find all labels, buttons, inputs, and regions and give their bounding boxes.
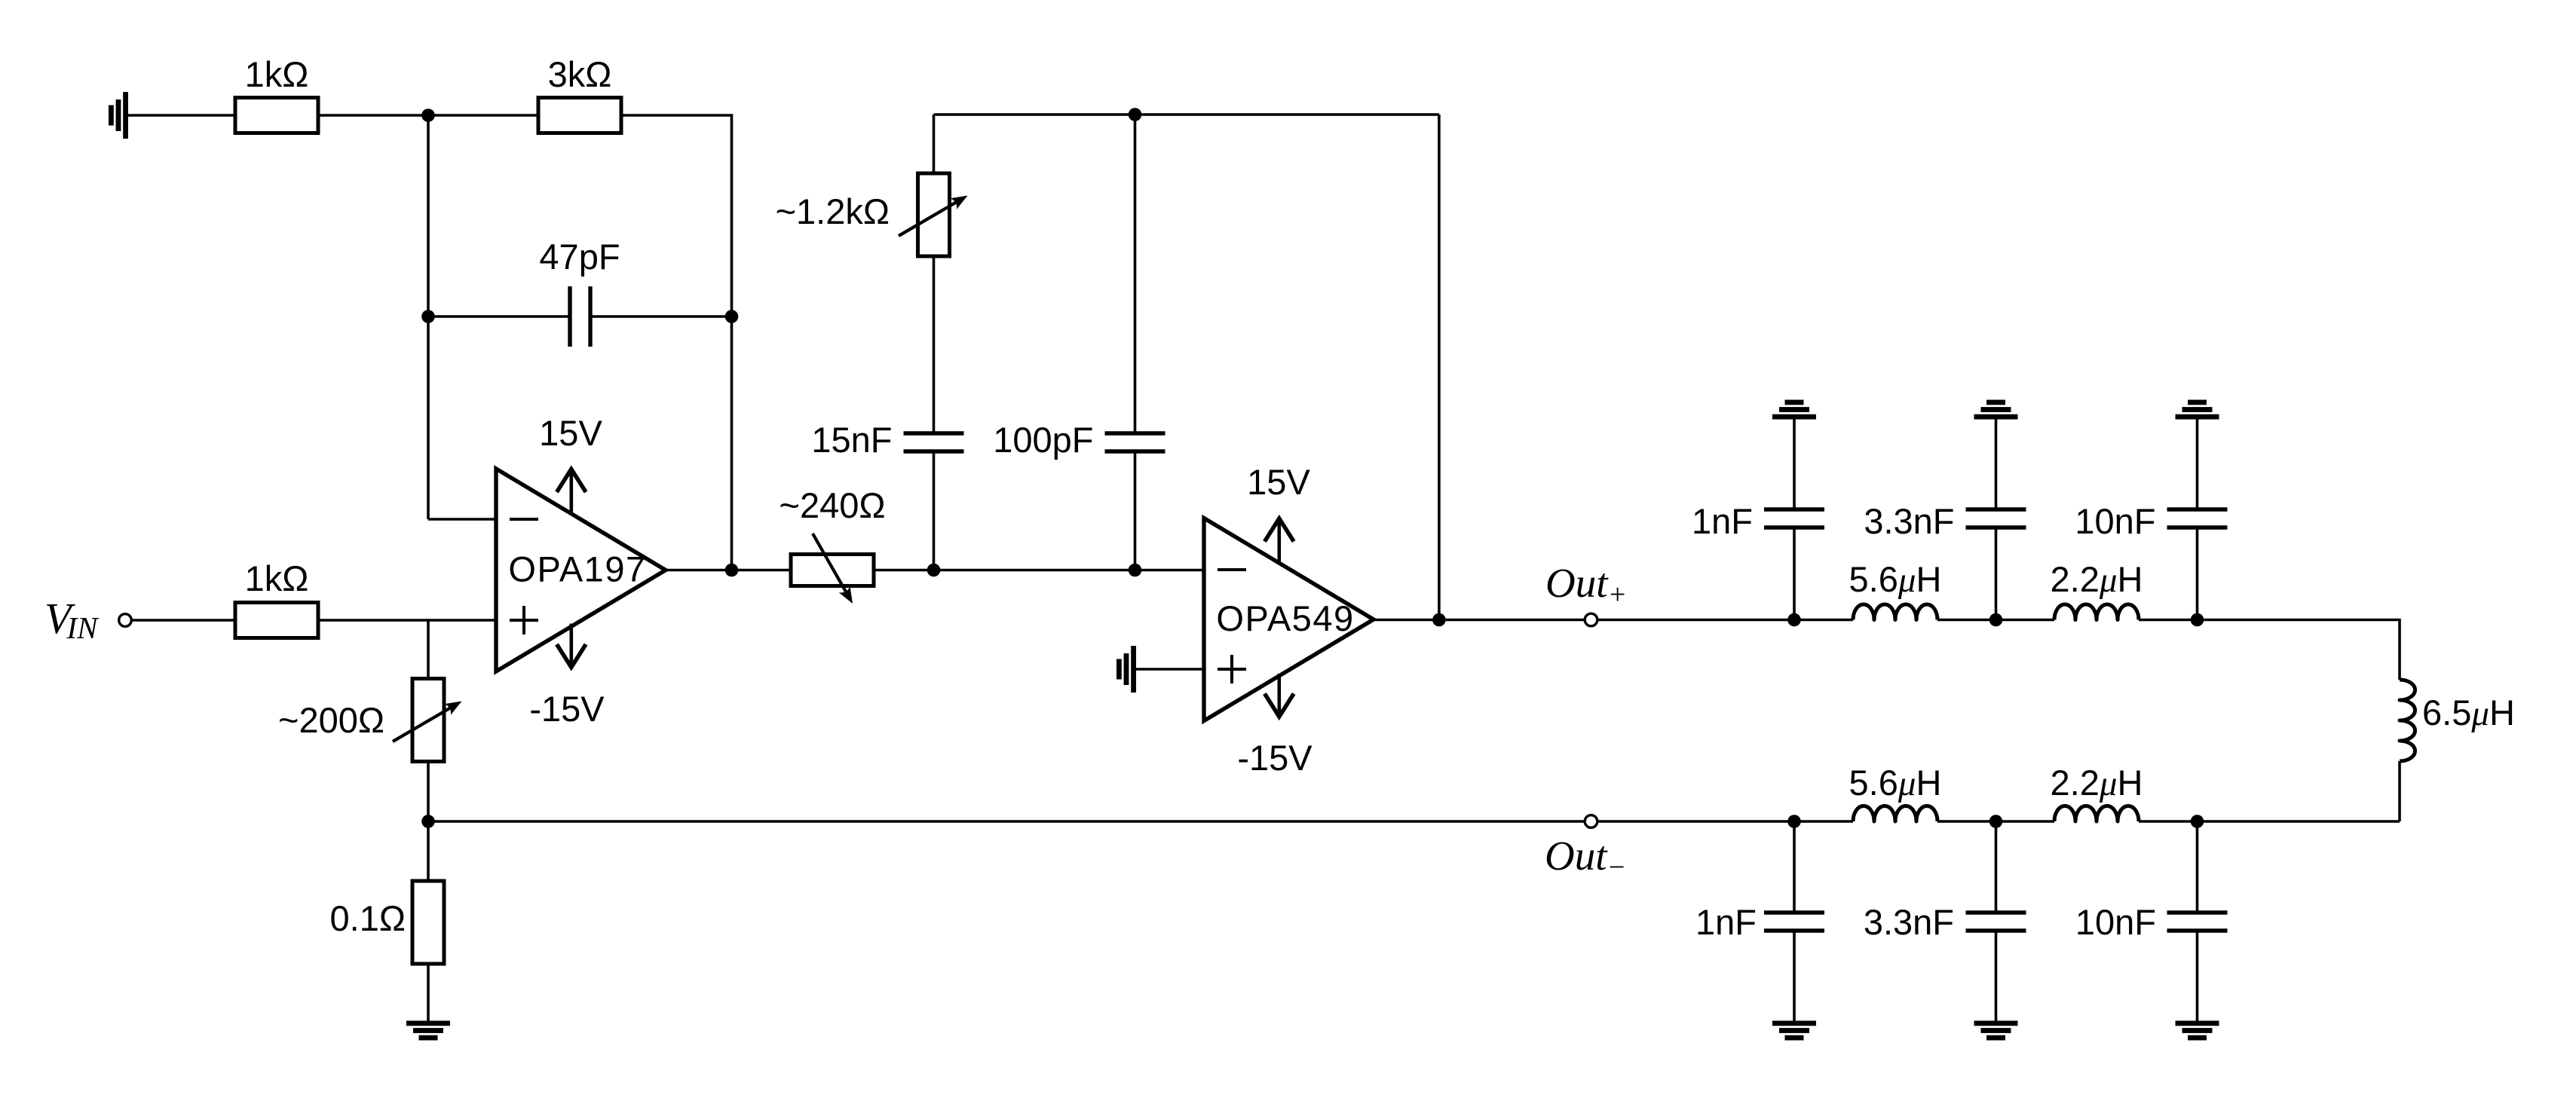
ground below cap (1772, 1021, 1816, 1026)
ground above cap x=2914.5 (2176, 414, 2219, 420)
potentiometer R7 1.2k (918, 173, 950, 256)
node OPA549 output junction (1432, 613, 1446, 627)
OPA549 negative supply arrow (1278, 674, 1282, 715)
inductor L2 2.2uH top (2054, 604, 2139, 620)
svg-text:6.5μH: 6.5μH (2422, 693, 2515, 733)
node bottom left (421, 815, 435, 828)
wire C2 to signal row (933, 451, 936, 570)
wire Out- to filter (1597, 820, 1853, 823)
wire cap to ground (2196, 931, 2199, 1021)
wire top feedback rail (934, 113, 1439, 116)
wire 100pF top lead (1134, 115, 1137, 433)
wire cap to ground (1995, 931, 1998, 1021)
wire R6 to OPA549 inverting input (874, 569, 1204, 572)
wire rail to cap x=2914.5 (2196, 821, 2199, 913)
svg-text:~1.2kΩ: ~1.2kΩ (776, 191, 890, 231)
wire R7 to C2 (933, 256, 936, 433)
svg-text:1kΩ: 1kΩ (245, 558, 309, 598)
ground below R5 (406, 1021, 450, 1026)
node filter1 bottom (1787, 815, 1801, 828)
svg-text:1nF: 1nF (1692, 501, 1753, 541)
svg-text:0.1Ω: 0.1Ω (330, 898, 406, 938)
svg-text:15V: 15V (1247, 462, 1310, 502)
terminal Out- (1585, 815, 1597, 828)
ground below cap (2176, 1021, 2219, 1026)
svg-text:47pF: 47pF (539, 237, 620, 277)
svg-text:3.3nF: 3.3nF (1864, 902, 1954, 942)
svg-text:-15V: -15V (529, 689, 605, 729)
wire cap to ground (1793, 931, 1796, 1021)
node filter3 top (2191, 613, 2204, 627)
ground above cap x=2380 (1772, 414, 1816, 420)
terminal Out+ (1585, 613, 1597, 626)
wire to OPA197 inverting input (428, 518, 498, 521)
wire L5 to corner (2139, 820, 2400, 823)
resistor R1 1k top (235, 98, 318, 133)
wire ground to cap (2196, 420, 2199, 510)
wire Out+ to filter (1597, 619, 1853, 622)
wire output to R6 (666, 569, 791, 572)
wire cap to rail (2196, 528, 2199, 620)
svg-text:3.3nF: 3.3nF (1864, 501, 1954, 541)
node OPA197 output (725, 564, 739, 577)
wire 47pF left lead (428, 315, 570, 318)
node filter3 bottom (2191, 815, 2204, 828)
wire cap to rail (1793, 528, 1796, 620)
wire node A down to inverting input (427, 115, 430, 519)
wire L1 to node2 (1937, 619, 2054, 622)
wire R4 to bottom node (427, 762, 430, 822)
OPA197 negative supply arrow (569, 624, 573, 666)
capacitor 1nF top row (1764, 507, 1824, 511)
wire node to R5 (427, 821, 430, 881)
wire R2 to corner and down (621, 115, 732, 317)
node A junction (421, 109, 435, 122)
svg-text:10nF: 10nF (2075, 501, 2155, 541)
svg-text:3kΩ: 3kΩ (548, 54, 612, 94)
ground below cap (1974, 1021, 2018, 1026)
op-amp U1 OPA197 (496, 469, 666, 671)
svg-text:1kΩ: 1kΩ (245, 54, 309, 94)
svg-text:~200Ω: ~200Ω (278, 700, 384, 740)
wire L4 to node2 (1937, 820, 2054, 823)
wire VIN to R3 (132, 619, 236, 622)
wire OPA549 output (1374, 619, 1585, 622)
wire ground to cap (1793, 420, 1796, 510)
wire rail to cap x=2380 (1793, 821, 1796, 913)
potentiometer R4 200 (412, 679, 444, 762)
svg-text:~240Ω: ~240Ω (780, 485, 886, 525)
node filter1 top (1787, 613, 1801, 627)
inductor L4 5.6uH bottom (1853, 806, 1937, 822)
wire ground to R1 (128, 114, 235, 117)
wire cap to rail (1995, 528, 1998, 620)
resistor R5 0.1 (412, 881, 444, 964)
wire R3 to noninverting input (318, 619, 498, 622)
wire L2 to corner (2139, 620, 2400, 680)
capacitor 10nF bottom row (2167, 910, 2228, 914)
wire 47pF right lead (590, 315, 732, 318)
wire R5 to ground (427, 964, 430, 1021)
inductor L3 6.5uH (2400, 680, 2415, 761)
capacitor C1 47pF (568, 286, 571, 347)
inductor L5 2.2uH bottom (2054, 806, 2139, 822)
capacitor 3.3nF top row (1966, 507, 2026, 511)
wire rail to cap x=2647.5 (1995, 821, 1998, 913)
node feedback top (1129, 108, 1142, 121)
ground at OPA549 noninverting input (1131, 646, 1136, 693)
capacitor 10nF top row (2167, 507, 2228, 511)
wire 1.2k top lead (933, 115, 936, 173)
svg-text:5.6μH: 5.6μH (1849, 763, 1942, 803)
OPA549 positive supply arrow (1278, 520, 1282, 562)
svg-text:2.2μH: 2.2μH (2051, 559, 2143, 600)
inductor L1 5.6uH top (1853, 604, 1937, 620)
wire down to R4 (427, 620, 430, 679)
OPA197 positive supply arrow (569, 471, 573, 512)
capacitor 3.3nF bottom row (1966, 910, 2026, 914)
ground top-left (123, 92, 128, 139)
svg-text:15nF: 15nF (811, 420, 892, 460)
wire down to output node (731, 317, 734, 570)
resistor R3 1k input (235, 603, 318, 638)
node filter2 top (1989, 613, 2003, 627)
resistor R2 3k (538, 98, 621, 133)
svg-text:10nF: 10nF (2075, 902, 2156, 942)
wire bottom-left node to Out- terminal (428, 820, 1585, 823)
wire feedback down to output (1438, 115, 1441, 620)
capacitor C3 100pF (1105, 431, 1165, 435)
svg-text:5.6μH: 5.6μH (1849, 559, 1942, 600)
svg-text:1nF: 1nF (1695, 902, 1757, 942)
svg-text:OPA197: OPA197 (508, 549, 646, 589)
svg-text:100pF: 100pF (993, 420, 1093, 460)
wire C3 to signal row (1134, 451, 1137, 570)
terminal VIN (119, 614, 132, 627)
node filter2 bottom (1989, 815, 2003, 828)
svg-text:15V: 15V (539, 413, 602, 453)
op-amp U2 OPA549 (1204, 518, 1374, 721)
potentiometer R6 240 (791, 555, 874, 586)
svg-text:OPA549: OPA549 (1216, 598, 1354, 638)
capacitor C2 15nF (904, 431, 964, 435)
node 15nF junction (927, 564, 941, 577)
wire ground to cap (1995, 420, 1998, 510)
svg-text:-15V: -15V (1237, 738, 1313, 778)
wire R1 to node A (318, 114, 538, 117)
node 100pF junction (1129, 564, 1142, 577)
node 47pF right (725, 310, 739, 323)
wire L3 to Out- rail corner (2398, 761, 2401, 821)
capacitor 1nF bottom row (1764, 910, 1824, 914)
node 47pF left (421, 310, 435, 323)
ground above cap x=2647.5 (1974, 414, 2018, 420)
svg-text:2.2μH: 2.2μH (2051, 763, 2143, 803)
